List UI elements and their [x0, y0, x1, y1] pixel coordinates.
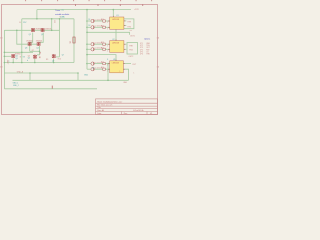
svg-text:a: a — [8, 61, 9, 63]
svg-text:JP6: JP6 — [140, 54, 143, 56]
node junction gnd left — [4, 62, 6, 64]
wires — [4, 10, 137, 89]
node junction bus row3 — [86, 43, 88, 45]
svg-text:8: 8 — [107, 59, 108, 61]
svg-text:Rev:: Rev: — [124, 113, 128, 115]
node junction x51.7 base rail — [51, 30, 53, 32]
resistor R11 — [103, 20, 106, 22]
wire top V+ rail — [37, 9, 131, 11]
svg-text:R9: R9 — [46, 59, 48, 61]
node junction y52.3 left — [4, 52, 6, 54]
svg-text:2N3906: 2N3906 — [35, 29, 41, 31]
svg-text:File: timer_osc.sch: File: timer_osc.sch — [97, 104, 112, 107]
node junction bus row2 — [86, 27, 88, 29]
svg-text:R13: R13 — [101, 42, 104, 44]
svg-text:Q6: Q6 — [15, 58, 17, 60]
title block — [96, 99, 158, 115]
node junction x59.5 — [59, 18, 61, 20]
svg-text:LM555N: LM555N — [112, 63, 120, 65]
svg-text:+12V: +12V — [134, 9, 139, 11]
diode D1 — [91, 19, 94, 22]
wire drop to Q5 — [37, 51, 40, 55]
svg-text:Q4: Q4 — [36, 48, 38, 50]
svg-text:2: 2 — [107, 22, 108, 24]
node junction x78 y73 — [77, 72, 79, 74]
svg-text:TRG: TRG — [127, 26, 131, 28]
svg-text:10k: 10k — [69, 41, 71, 44]
svg-text:Sheet: /multivibrator/timer_os: Sheet: /multivibrator/timer_osc/ — [97, 101, 122, 104]
wire Q3 emitter drop — [29, 46, 31, 51]
wire y52.3 — [4, 51, 33, 53]
node junction gnd q6 — [12, 62, 14, 64]
title block text — [97, 101, 152, 116]
resistor R15 — [103, 62, 106, 64]
resistor R14 — [103, 48, 106, 50]
svg-text:2: 2 — [107, 45, 108, 47]
wire Q2 emitter link — [40, 33, 44, 43]
svg-text:Options: Options — [144, 37, 150, 40]
svg-text:U2: U2 — [112, 39, 114, 41]
svg-text:LM555N: LM555N — [112, 43, 120, 45]
wire Q7 drop — [53, 59, 55, 63]
svg-text:Q7: Q7 — [62, 55, 64, 57]
transistor Q6 — [11, 54, 15, 58]
op-amp U1 timer IC — [110, 17, 124, 29]
wire IC3 gnd drop — [107, 64, 109, 81]
red mark on y88.8 rail — [52, 86, 53, 89]
resistor R13 — [103, 43, 106, 45]
svg-text:2N3906: 2N3906 — [26, 40, 32, 42]
wire IC2 loop — [127, 43, 138, 55]
wire IC2 right stub 1 — [124, 43, 126, 45]
svg-text:D5: D5 — [92, 67, 94, 69]
svg-text:Timer: Timer — [55, 9, 61, 12]
node junction y51.3 — [39, 51, 41, 53]
transistor Q1 — [31, 28, 35, 32]
wire left vertical — [3, 30, 5, 89]
node junction bus row54 — [86, 54, 88, 56]
wire left bus vertical — [21, 19, 23, 63]
wire drop x78 — [77, 73, 79, 80]
svg-text:OUT1: OUT1 — [130, 35, 135, 37]
wire drop x59.5 — [59, 19, 61, 57]
wire feed row 2 — [87, 26, 110, 28]
wire bottom rail y80.3 — [13, 79, 129, 81]
wire Q6 emitter drop — [12, 59, 14, 63]
diode D6 — [91, 68, 94, 71]
resistor R5 on x74 — [73, 37, 75, 43]
svg-text:Q2: Q2 — [41, 34, 43, 36]
diode D5 — [91, 62, 94, 65]
node junction bus top — [86, 9, 88, 11]
transistor Q5 — [33, 55, 37, 59]
node junction rail bottom — [107, 80, 109, 82]
svg-text:Size: A4: Size: A4 — [97, 109, 104, 112]
svg-text:osc: osc — [61, 10, 64, 12]
svg-text:JP1: JP1 — [140, 43, 143, 45]
svg-text:Title:: Title: — [97, 106, 101, 109]
svg-text:JP5: JP5 — [140, 51, 143, 53]
svg-text:U1: U1 — [116, 15, 118, 17]
diode D4 — [91, 48, 94, 51]
red tick Q5 — [38, 57, 41, 59]
wire feed row 1 — [87, 20, 110, 22]
svg-text:Q3: Q3 — [25, 48, 27, 50]
resistor R16 — [103, 68, 106, 70]
svg-text:JP4: JP4 — [140, 49, 143, 51]
wire IC3 out — [123, 63, 131, 65]
svg-text:TRG: TRG — [129, 50, 133, 52]
svg-text:2: 2 — [107, 65, 108, 67]
wire Q6 base — [4, 55, 11, 57]
svg-text:b: b — [27, 60, 28, 62]
transistor Q2 — [41, 28, 45, 32]
node junction bus row1 — [86, 20, 88, 22]
wire Q1 emitter link — [30, 33, 33, 43]
wire feed bus — [86, 10, 88, 70]
op-amp U3 timer IC — [110, 61, 124, 73]
resistor R12 — [103, 26, 106, 28]
wire feed row 3 — [87, 43, 110, 45]
wire IC1 loop — [124, 19, 134, 29]
wire IC2 right stub 2 — [124, 48, 126, 50]
wire Q7 collector — [56, 56, 60, 58]
svg-text:Q7: Q7 — [52, 61, 54, 63]
svg-text:RST: RST — [146, 49, 149, 51]
wire IC1-IC2 link — [115, 29, 117, 40]
svg-text:DIS: DIS — [130, 30, 133, 32]
svg-text:R3: R3 — [53, 21, 55, 23]
title block dividers — [122, 112, 148, 115]
transistor Q4 — [37, 42, 41, 46]
wire feed row 6 — [87, 68, 110, 70]
node junction gnd q7 — [53, 62, 55, 64]
wire ground rail y62.5 — [4, 62, 74, 64]
wire drop x51.7 — [51, 19, 53, 31]
svg-text:KiCad E.D.A.: KiCad E.D.A. — [133, 109, 144, 112]
svg-text:2N3906: 2N3906 — [45, 29, 51, 31]
svg-text:OUT: OUT — [146, 47, 149, 49]
svg-text:2: 2 — [107, 70, 108, 72]
wire ground rail y88.8 — [4, 88, 97, 90]
node junction y56.3 left — [4, 56, 6, 58]
svg-text:R12: R12 — [101, 25, 104, 27]
svg-text:R7: R7 — [32, 50, 34, 52]
svg-text:R16: R16 — [101, 67, 104, 69]
table legend rows — [140, 43, 151, 56]
wire feed row 5 — [87, 63, 110, 65]
svg-text:2: 2 — [107, 50, 108, 52]
wire rail y73 — [4, 72, 78, 74]
junction dots — [4, 9, 115, 81]
sheet border frame — [2, 5, 158, 115]
node label on left bus top — [19, 22, 27, 24]
svg-text:GND_A: GND_A — [17, 71, 24, 74]
frame side ticks — [0, 37, 158, 67]
svg-text:GND_2: GND_2 — [13, 85, 19, 87]
wire emitter join y51.3 — [30, 50, 40, 52]
wire feed row 4 — [87, 48, 110, 50]
svg-text:GND: GND — [84, 74, 89, 76]
svg-text:2N3906: 2N3906 — [36, 40, 42, 42]
wire Q4 emitter drop — [39, 46, 41, 51]
svg-text:D1: D1 — [88, 19, 90, 21]
wire IC1 VCC drop — [112, 10, 114, 17]
svg-text:R15: R15 — [101, 62, 104, 64]
op-amp U2 timer IC — [110, 41, 124, 53]
svg-text:OUT2: OUT2 — [129, 56, 134, 58]
svg-text:1/1: 1/1 — [150, 113, 153, 115]
node junction gnd q5 — [34, 62, 36, 64]
svg-text:R11: R11 — [101, 19, 104, 21]
node junction ic3 gnd — [107, 63, 109, 65]
wire IC3 pin to bottom rail — [123, 69, 128, 80]
svg-text:JP2: JP2 — [140, 45, 143, 47]
svg-text:R14: R14 — [101, 47, 104, 49]
node junction bus net32 — [86, 32, 88, 34]
frame zone ticks on border — [75, 4, 143, 6]
svg-text:JP3: JP3 — [140, 47, 143, 49]
svg-text:2: 2 — [107, 28, 108, 30]
sheet background — [0, 0, 160, 120]
pin dashes ICs — [108, 16, 125, 69]
wire net under IC1 — [87, 32, 130, 35]
node junction rail-drop — [36, 18, 38, 20]
node junction x30 y73 — [29, 72, 31, 74]
node junction x16.8 — [16, 30, 18, 32]
text annotation block — [55, 9, 70, 18]
node junction gnd x21.8 — [21, 62, 23, 64]
diode D3 — [91, 43, 94, 46]
svg-text:U3: U3 — [113, 59, 115, 61]
diode D2 — [91, 26, 94, 29]
node label on left bus mid — [20, 56, 26, 58]
node junction vcc drop — [113, 9, 115, 11]
wire Q5 drop — [34, 59, 36, 63]
wire base rail y30.3 — [4, 29, 59, 31]
node junction bus row5 — [86, 63, 88, 65]
svg-text:LM555N: LM555N — [112, 19, 120, 21]
svg-text:R10: R10 — [58, 59, 61, 61]
wire IC1 right stub 2 — [124, 25, 126, 27]
wire drop to second rail — [36, 10, 38, 19]
node junction y52.3 mid — [21, 52, 23, 54]
svg-text:Date:: Date: — [97, 112, 102, 115]
wire L to row2 bases — [17, 30, 37, 44]
svg-text:R8: R8 — [38, 52, 40, 54]
wire IC2-IC3 link — [87, 55, 116, 61]
node junction bus row4 — [86, 49, 88, 51]
frame zone ticks top edge — [25, 0, 152, 1]
wire drop x74 — [73, 19, 75, 63]
transistor Q7 — [52, 54, 56, 58]
wire IC1 right stub 1 — [124, 20, 126, 22]
svg-text:Q1: Q1 — [29, 34, 31, 36]
wire link x30 — [29, 73, 31, 80]
transistor Q3 — [28, 42, 32, 46]
svg-text:Q5: Q5 — [28, 58, 30, 60]
wire second rail — [22, 18, 74, 20]
node junction x51.7 — [51, 18, 53, 20]
svg-text:D2: D2 — [88, 25, 90, 27]
